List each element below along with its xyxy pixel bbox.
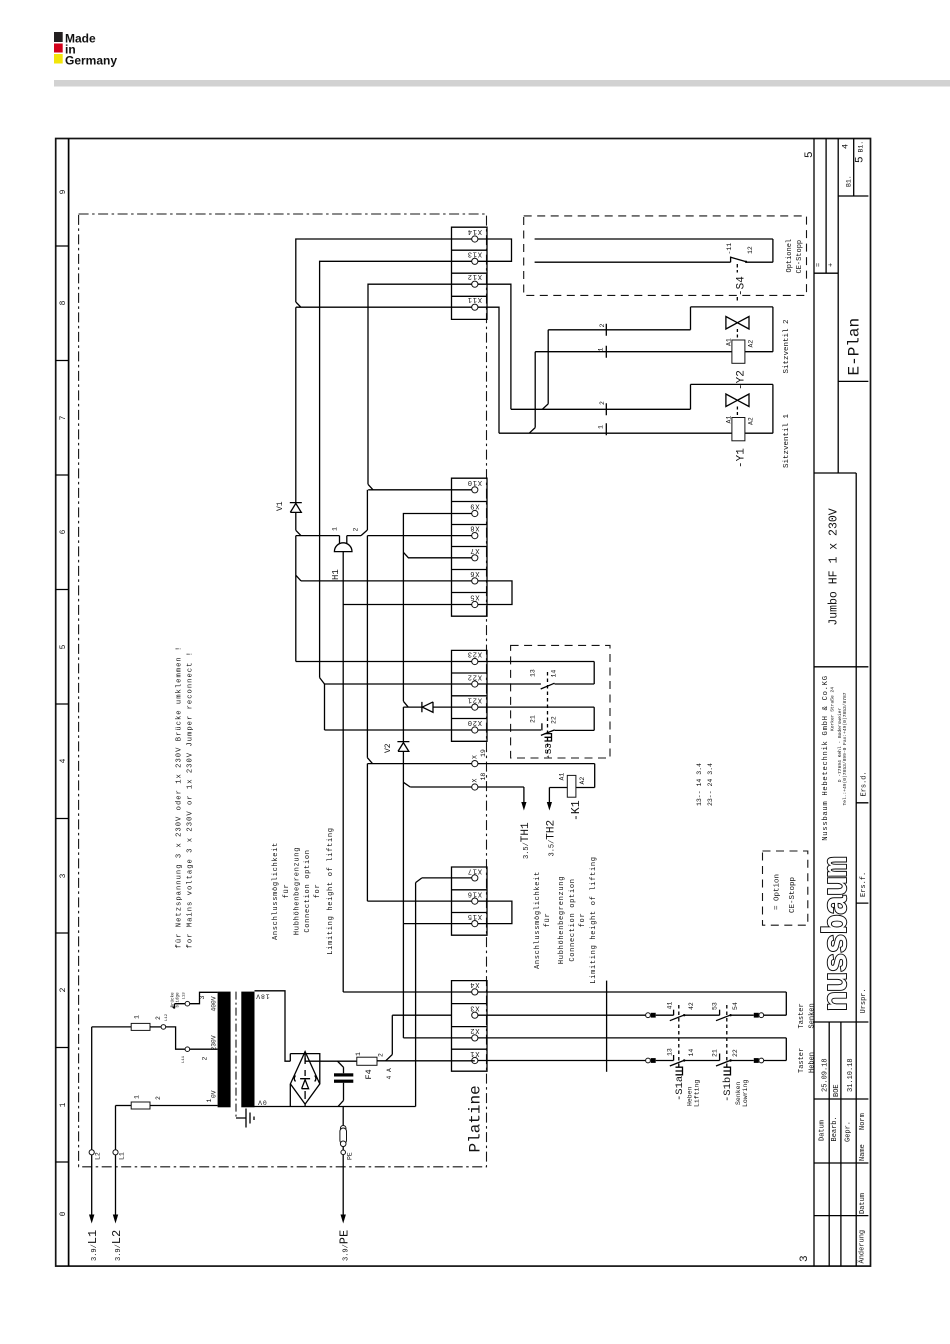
Y1 valve bowtie [726, 394, 749, 407]
svg-text:-S3: -S3 [544, 743, 554, 759]
terminal X1 circle [472, 1057, 478, 1063]
svg-text:Name: Name [859, 1144, 867, 1161]
wire X19 to relay K1 [478, 764, 595, 788]
svg-text:X7: X7 [469, 546, 479, 554]
svg-text:2: 2 [378, 1053, 385, 1057]
tap terminal circle [161, 1025, 166, 1030]
svg-text:X: X [472, 755, 479, 759]
terminal X8 circle [472, 533, 478, 539]
S1b contact 21-22 blade [716, 1060, 731, 1066]
S3 contact 13-14 blade [541, 683, 555, 689]
svg-text:Senken: Senken [735, 1081, 742, 1105]
Y1 actuator dash [736, 407, 738, 418]
wire bridge plus to F4 [305, 1052, 357, 1062]
capacitor C1 connection top [337, 1061, 343, 1073]
svg-text:Lowring: Lowring [742, 1080, 749, 1107]
wire X18 to TH1 arrow [478, 787, 524, 806]
svg-text:3.9/L2: 3.9/L2 [110, 1230, 124, 1261]
svg-text:= Option: = Option [774, 874, 782, 910]
svg-text:400V: 400V [211, 996, 218, 1011]
S1b contact 53-54 blade [716, 1015, 731, 1021]
wire X21 internal left [403, 706, 422, 708]
junction diagonal X9 bus to X21 [403, 701, 408, 707]
option note dashed box [763, 851, 808, 925]
terminal X13 circle [472, 258, 478, 264]
S1b contact 21-22 stop bar [719, 1054, 721, 1061]
switch row1 X3 wire to plug [478, 1014, 646, 1016]
svg-text:4 A: 4 A [386, 1068, 393, 1080]
svg-text:21: 21 [712, 1049, 719, 1057]
svg-text:31.10.18: 31.10.18 [847, 1058, 855, 1092]
svg-text:für Netzspannung 3 x 230V oder: für Netzspannung 3 x 230V oder 1x 230V B… [176, 646, 184, 949]
bus B segment X10 to H1 [366, 490, 368, 530]
text blocks [171, 646, 599, 1008]
svg-text:4: 4 [59, 758, 68, 763]
S1a contact 13-14 tick [673, 1055, 675, 1061]
diode V1 [290, 503, 302, 513]
svg-text:0: 0 [59, 1211, 68, 1216]
S1a contact 41-42 blade [670, 1015, 685, 1021]
PE link circle top [340, 1126, 346, 1132]
svg-text:Anschlussmöglichkeit: Anschlussmöglichkeit [272, 842, 280, 940]
S3 wire X23 [478, 662, 594, 685]
wire X22 internal [325, 683, 472, 685]
jumper loop X15-X16 [478, 901, 512, 924]
terminal X18 circle [472, 784, 478, 790]
svg-text:+: + [828, 263, 836, 267]
svg-text:X17: X17 [467, 866, 482, 874]
svg-text:13-- 14 3.4: 13-- 14 3.4 [696, 763, 703, 806]
svg-text:B1.: B1. [846, 175, 853, 187]
junction diagonal X13 to X22 [320, 678, 325, 684]
svg-text:18: 18 [480, 773, 487, 781]
switch row1 top wire X4 [478, 992, 786, 1015]
svg-text:X15: X15 [467, 912, 482, 920]
svg-text:X10: X10 [467, 478, 482, 486]
svg-text:3: 3 [799, 1255, 811, 1262]
S1a linkage dashes [678, 1005, 680, 1068]
svg-text:X11: X11 [467, 295, 482, 303]
S1b blade dot [729, 1014, 731, 1016]
frame row-label column line [68, 139, 70, 1267]
terminal X3 circle [472, 1012, 478, 1018]
svg-text:X5: X5 [469, 593, 479, 601]
S3 wire 22 side [555, 729, 595, 731]
svg-text:A1: A1 [559, 773, 566, 781]
PE link body [340, 1128, 347, 1144]
junction diagonal bus D to X18 [403, 782, 410, 787]
svg-text:Senken: Senken [809, 1003, 817, 1028]
S1a 13-14 blade dot [683, 1059, 685, 1061]
svg-text:L13: L13 [183, 992, 187, 1000]
wire X19 internal [367, 763, 471, 765]
platine dash-dot boundary [79, 214, 487, 1167]
L1 terminal circle [113, 1150, 118, 1155]
terminal X7 circle [472, 555, 478, 561]
wire PE drop [342, 1107, 344, 1126]
bridge bottom stub [304, 1104, 306, 1106]
wire X4 internal [343, 991, 472, 993]
svg-text:230V: 230V [211, 1035, 218, 1050]
svg-text:-S1a: -S1a [674, 1076, 686, 1101]
svg-text:Connection option: Connection option [569, 878, 577, 961]
wire X12 internal [368, 284, 472, 484]
junction diagonal X8 wire to bus B [361, 530, 367, 536]
svg-text:Connection option: Connection option [304, 849, 312, 932]
jumper loop X5-X6 [478, 581, 512, 605]
arrow PE feed [341, 1215, 346, 1224]
row1 wire to right plug [731, 1014, 754, 1016]
svg-text:V2: V2 [384, 743, 393, 753]
Y2 actuator dash [736, 329, 738, 340]
Y2 wire 1 [535, 351, 773, 353]
bus A upper segment [295, 307, 297, 502]
svg-text:A2: A2 [748, 417, 755, 425]
connector strip X20-X23 box [452, 650, 488, 741]
svg-text:2: 2 [202, 1057, 209, 1061]
made-in-germany logo [54, 32, 117, 68]
transformer T1 secondary winding [241, 992, 254, 1108]
wire X8 to lamp H1 [296, 535, 361, 537]
PE link circle bottom [340, 1141, 346, 1147]
row1 wire plug to loop [764, 1014, 787, 1016]
svg-text:=: = [816, 263, 824, 267]
bus A mid segment [295, 512, 297, 530]
svg-text:3.5/TH2: 3.5/TH2 [546, 820, 558, 857]
junction diagonal X6 to bus A [296, 575, 301, 581]
svg-text:X22: X22 [467, 672, 482, 680]
S1a contact 41-42 tick [673, 1010, 675, 1016]
svg-text:Platine: Platine [467, 1085, 485, 1152]
S1b pushbutton actuator symbol [724, 1067, 731, 1075]
svg-text:BOE: BOE [833, 1084, 841, 1097]
terminal X11 circle [472, 304, 478, 310]
svg-text:4: 4 [841, 144, 851, 149]
S4 blade dot [745, 261, 747, 263]
svg-text:Urspr.: Urspr. [860, 988, 868, 1013]
wire X18 internal [410, 786, 472, 788]
row1 wire to contact 41 [656, 1014, 674, 1016]
svg-text:Germany: Germany [65, 54, 117, 68]
row2 wire plug to loop [764, 1060, 787, 1062]
wire 0V to bridge left [289, 1084, 291, 1107]
Y1 cable ticks [605, 403, 607, 435]
Y1 wire 1 [499, 432, 773, 434]
jumper loop X13-X14 [478, 239, 512, 261]
row1 wire between contacts [685, 1014, 720, 1016]
230V tap circle [185, 1047, 190, 1052]
wire 230V tap to winding [190, 1048, 218, 1050]
svg-text:Gepr.: Gepr. [845, 1121, 853, 1142]
diode V2 [397, 742, 409, 752]
svg-text:bridge: bridge [176, 992, 181, 1008]
svg-text:A1: A1 [726, 416, 733, 424]
svg-text:X3: X3 [469, 1003, 479, 1011]
svg-text:Limiting height of lifting: Limiting height of lifting [327, 827, 335, 954]
S1a blade dot [683, 1014, 685, 1016]
wire X12 to valve common [478, 284, 511, 409]
PE terminal circle [341, 1150, 346, 1155]
svg-text:Anschlussmöglichkeit: Anschlussmöglichkeit [534, 871, 542, 969]
svg-text:1: 1 [598, 425, 605, 429]
svg-text:22: 22 [551, 716, 558, 724]
terminal X2 circle [472, 1035, 478, 1041]
svg-text:5: 5 [59, 644, 68, 649]
cable line through switch rows [606, 981, 608, 1072]
bridge inner dash marks [304, 1058, 306, 1099]
terminal X19 circle [472, 761, 478, 767]
svg-text:Limiting height of lifting: Limiting height of lifting [590, 856, 598, 983]
svg-text:0V: 0V [257, 1099, 266, 1106]
S4 wire bottom left [535, 261, 731, 263]
wire X6 internal [301, 580, 472, 582]
row2 left plug socket circle [646, 1058, 651, 1063]
svg-text:CE-Stopp: CE-Stopp [789, 877, 797, 913]
svg-text:2: 2 [155, 1096, 162, 1100]
wire 400V tap to winding [190, 992, 218, 1003]
S4 contact blade [731, 257, 747, 262]
S1a contact 13-14 blade [670, 1060, 685, 1066]
Y1 coil [732, 418, 745, 441]
transformer T1 primary winding [218, 992, 231, 1108]
svg-text:X8: X8 [469, 524, 479, 532]
external circuits right side [478, 216, 817, 1107]
wire X10 internal [368, 489, 472, 491]
svg-text:21: 21 [530, 715, 537, 723]
bridge rectifier V3 diamond [290, 1052, 319, 1105]
connector strip X1-X4 box [452, 981, 488, 1072]
internal buses and wires [276, 239, 472, 1107]
junction diagonal X14/X11 [296, 302, 301, 307]
arrow TH2 [547, 802, 552, 811]
lamp H1 dome [334, 543, 352, 552]
bus C drop to X20 [325, 684, 472, 730]
svg-text:42: 42 [688, 1002, 695, 1010]
S3 linkage dashes [547, 672, 549, 757]
svg-text:A1: A1 [726, 338, 733, 346]
bus A lower segment to X23 [296, 536, 472, 662]
svg-text:X9: X9 [469, 501, 479, 509]
junction diagonal bus B to X19 [367, 758, 372, 764]
svg-text:Heben: Heben [687, 1086, 694, 1106]
S3 contact 21-22 blade [541, 730, 555, 736]
svg-text:V1: V1 [276, 501, 285, 511]
flag square black [54, 32, 63, 42]
arrow TH1 [521, 802, 526, 811]
terminal X6 circle [472, 578, 478, 584]
wire fuse to tap circle [150, 1026, 161, 1028]
connector strip X5-X10 box [452, 478, 488, 616]
svg-text:13: 13 [667, 1048, 674, 1056]
400V tap circle [185, 1001, 190, 1006]
S1b contact 53-54 tick [719, 1010, 721, 1016]
svg-text:1: 1 [134, 1015, 141, 1019]
S1b linkage dashes [726, 1005, 728, 1068]
svg-text:2: 2 [59, 987, 68, 992]
flag square red [54, 44, 63, 53]
svg-text:X4: X4 [469, 980, 479, 988]
svg-text:25.09.18: 25.09.18 [822, 1058, 830, 1092]
svg-text:A2: A2 [579, 777, 586, 785]
svg-text:13: 13 [530, 669, 537, 677]
wire tap to 230V [166, 1027, 186, 1049]
Y2 wire 2 [548, 307, 773, 352]
row2 left plug pin [651, 1058, 656, 1063]
junction diagonal X12 to X10 [368, 484, 373, 490]
svg-text:for: for [579, 913, 587, 928]
svg-text:3.9/PE: 3.9/PE [338, 1230, 352, 1261]
wire K1 to TH2 arrow [549, 788, 567, 807]
row2 right plug pin [754, 1058, 759, 1063]
power input / transformer section [86, 991, 475, 1261]
svg-text:Hubhöhenbegrenzung: Hubhöhenbegrenzung [294, 847, 302, 935]
svg-text:für: für [544, 913, 552, 928]
wire X21 diode to circle [433, 706, 472, 708]
wire X7 internal with junction diagonal [403, 552, 471, 558]
fuse F1 body [131, 1102, 150, 1109]
frame outer border [56, 139, 871, 1267]
svg-text:L2: L2 [95, 1152, 102, 1160]
svg-text:X14: X14 [467, 227, 482, 235]
row2 right plug socket circle [759, 1058, 764, 1063]
svg-text:Sitzventil 2: Sitzventil 2 [783, 319, 791, 373]
arrow L2 feed [113, 1215, 118, 1224]
svg-text:Datum: Datum [819, 1120, 827, 1141]
svg-text:53: 53 [712, 1002, 719, 1010]
terminal X16 circle [472, 898, 478, 904]
svg-text:8: 8 [59, 300, 68, 305]
svg-text:Bearb.: Bearb. [831, 1116, 839, 1141]
Y2 cable ticks [605, 324, 607, 358]
bus D segment V2 down [402, 751, 404, 923]
S4 contact tick [730, 257, 732, 263]
bruecke stub wire [173, 1004, 186, 1009]
Y2 valve bowtie [726, 317, 749, 330]
S3 wire X21 [478, 707, 594, 730]
svg-text:X20: X20 [467, 718, 482, 726]
svg-text:X13: X13 [467, 250, 482, 258]
svg-text:Ers.d.: Ers.d. [861, 771, 869, 796]
terminal X4 circle [472, 989, 478, 995]
capacitor C1 plate 1 [334, 1073, 353, 1076]
svg-text:0V: 0V [211, 1090, 218, 1098]
connector strip X15-X17 box [452, 867, 488, 935]
wire L1 vertical [115, 1106, 117, 1219]
capacitor C1 connection bottom [338, 1083, 344, 1107]
wire PE down [342, 1155, 344, 1219]
gray divider bar [54, 80, 950, 87]
terminal X14 circle [472, 236, 478, 242]
svg-text:Datum: Datum [859, 1193, 867, 1214]
svg-text:X12: X12 [467, 272, 482, 280]
svg-text:1: 1 [332, 527, 339, 531]
connector strip X11-X14 box [452, 227, 488, 319]
capacitor C1 plate 2 [334, 1080, 353, 1083]
svg-text:L11: L11 [182, 1055, 186, 1063]
Y2 wire 2 drop [542, 330, 548, 410]
diode V5 in X21 wire [422, 702, 433, 712]
svg-text:PE: PE [347, 1152, 354, 1160]
bridge ac squiggles [294, 1076, 316, 1082]
wire X11 internal [296, 306, 472, 308]
svg-text:3: 3 [199, 996, 206, 1000]
svg-text:Brücke: Brücke [171, 992, 176, 1008]
terminal X10 circle [472, 487, 478, 493]
bus B segment to X16 [367, 764, 471, 902]
svg-text:X1: X1 [469, 1049, 479, 1057]
connector strips [452, 227, 488, 1071]
svg-text:nussbaum: nussbaum [819, 857, 857, 1011]
svg-text:22: 22 [732, 1049, 739, 1057]
svg-text:für: für [283, 884, 291, 899]
svg-text:3: 3 [59, 873, 68, 878]
svg-text:Tel.:+49(0)7853/899-0 Fax:+49: Tel.:+49(0)7853/899-0 Fax:+49(0)7853/878… [842, 692, 848, 805]
svg-text:1: 1 [355, 1052, 362, 1056]
title block [814, 139, 869, 1267]
switch row2 X1 wire to plug [478, 1060, 646, 1062]
row dividers [56, 246, 69, 1162]
ground symbol at core [236, 1109, 254, 1128]
svg-text:18V: 18V [255, 993, 269, 1000]
svg-text:1: 1 [59, 1102, 68, 1107]
row1 left plug socket circle [646, 1013, 651, 1018]
row2 wire between contacts [685, 1060, 720, 1062]
S3 pushbutton actuator symbol [545, 734, 552, 741]
junction diagonal to X3 feeder [386, 1015, 452, 1061]
svg-text:2: 2 [353, 528, 360, 532]
fuse F4 body [357, 1057, 377, 1065]
svg-text:X6: X6 [469, 569, 479, 577]
svg-text:-11: -11 [726, 243, 733, 255]
S4 wire bottom right [746, 239, 773, 262]
S3 wire 13 side from X22 [478, 683, 541, 685]
bridge inner diode [300, 1079, 310, 1089]
svg-text:Sitzventil 1: Sitzventil 1 [783, 413, 791, 468]
svg-text:5 B1.: 5 B1. [855, 141, 867, 163]
svg-text:-S1b: -S1b [722, 1077, 734, 1102]
row1 right plug pin [754, 1013, 759, 1018]
wire PE link to terminal [342, 1147, 344, 1151]
svg-text:14: 14 [688, 1049, 695, 1057]
svg-text:54: 54 [732, 1002, 739, 1010]
bus D segment X21 to V2 [402, 707, 404, 742]
wire 18V dc rail to X1 [377, 1060, 475, 1062]
svg-text:Taster: Taster [798, 1003, 806, 1028]
svg-text:9: 9 [59, 189, 68, 194]
S3 dashed box [511, 645, 610, 758]
svg-text:19: 19 [480, 749, 487, 757]
svg-text:H1: H1 [331, 569, 341, 580]
svg-text:A2: A2 [748, 340, 755, 348]
svg-text:-Y2: -Y2 [736, 370, 748, 390]
Y2 coil [732, 340, 745, 363]
bus D segment to X2 [403, 924, 471, 1038]
row2 wire to right plug [731, 1060, 754, 1062]
Y1 wire 2 [511, 384, 773, 433]
svg-text:23-- 24 3.4: 23-- 24 3.4 [707, 763, 714, 806]
svg-text:2: 2 [155, 1016, 162, 1020]
svg-text:14: 14 [551, 670, 558, 678]
svg-text:-Y1: -Y1 [736, 448, 748, 468]
terminal X23 circle [472, 658, 478, 664]
flag square yellow [54, 54, 63, 64]
terminal X21 circle [472, 704, 478, 710]
switch row2 top wire X2 [478, 1038, 786, 1061]
S4 linkage dashes [736, 264, 738, 301]
bus B segment below H1 [366, 536, 368, 758]
row1 left plug pin [651, 1013, 656, 1018]
S4 wire top [535, 238, 773, 240]
